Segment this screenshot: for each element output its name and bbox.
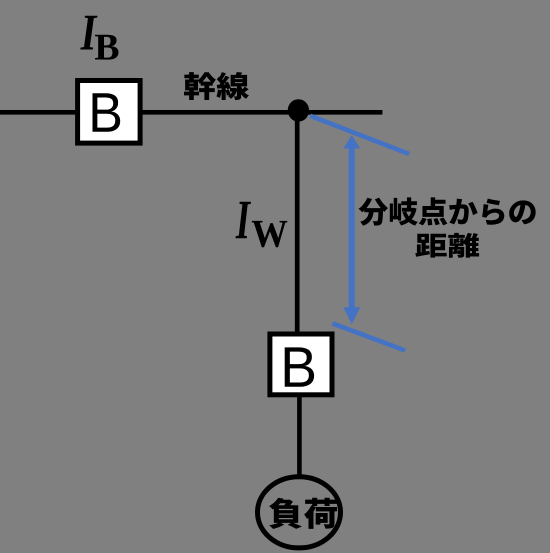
breaker B2 letter B <box>285 347 314 386</box>
current label I_W: italic I <box>235 202 250 238</box>
distance label line1 分岐点からの <box>358 197 535 225</box>
wire: breaker B2 to load <box>297 395 302 477</box>
dimension tick at branch point (blue oblique) <box>310 116 409 154</box>
dimension tick at breaker B2 (blue oblique) <box>332 323 405 350</box>
load label 負荷 <box>269 498 337 529</box>
dimension arrow head down <box>343 307 360 324</box>
main-line label 幹線 <box>184 72 249 100</box>
dimension arrow shaft (blue) <box>349 147 355 309</box>
wire: main line right segment <box>140 110 382 115</box>
wire: branch line from junction to breaker B2 <box>295 110 300 334</box>
wire: main line (kansen) left segment <box>0 110 80 115</box>
node: branch junction dot <box>288 99 309 121</box>
breaker B2 box <box>270 334 332 395</box>
breaker B1 box <box>78 81 141 144</box>
distance label line2 距離 <box>415 233 479 258</box>
current label I_B: subscript B <box>95 35 118 60</box>
current label I_W: subscript W <box>252 221 288 247</box>
load circle (fuka) <box>258 477 341 548</box>
dimension arrow head up <box>343 135 360 148</box>
current label I_B: italic I <box>80 16 97 50</box>
breaker B1 letter B <box>92 93 120 131</box>
